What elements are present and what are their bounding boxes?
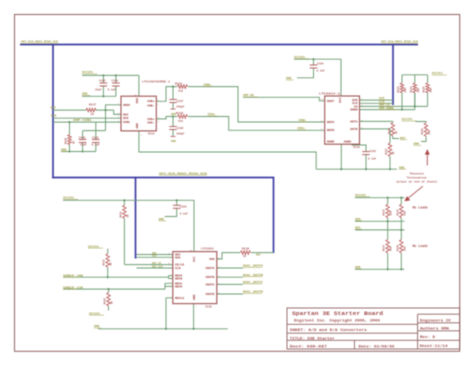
- svg-text:VOUTB: VOUTB: [205, 276, 214, 279]
- svg-text:VCC3V3: VCC3V3: [89, 312, 100, 315]
- svg-text:VREF: VREF: [123, 104, 130, 107]
- svg-text:OUTA: OUTA: [350, 120, 357, 123]
- svg-text:VCC: VCC: [193, 256, 196, 262]
- svg-text:R120: R120: [421, 128, 424, 135]
- svg-text:SHDN: SHDN: [350, 108, 357, 111]
- svg-text:R122: R122: [385, 148, 388, 155]
- svg-text:LTC1407ACMSE-1: LTC1407ACMSE-1: [142, 80, 170, 83]
- svg-text:CONL: CONL: [123, 121, 130, 124]
- svg-text:Date: 02/08/06: Date: 02/08/06: [359, 344, 396, 349]
- svg-text:VREF-AB: VREF-AB: [63, 274, 83, 277]
- svg-text:VDD: VDD: [209, 258, 215, 261]
- svg-text:VOUTA: VOUTA: [205, 267, 214, 270]
- svg-text:10uF: 10uF: [95, 89, 102, 92]
- svg-text:R137: R137: [383, 244, 386, 251]
- svg-text:0.1uF: 0.1uF: [108, 89, 116, 92]
- svg-text:SDI: SDI: [51, 106, 57, 109]
- svg-text:1K: 1K: [392, 151, 395, 155]
- svg-text:100: 100: [390, 210, 393, 215]
- svg-text:R136: R136: [242, 248, 249, 251]
- svg-text:10K: 10K: [404, 87, 407, 92]
- svg-text:VCC: VCC: [339, 97, 342, 103]
- svg-text:SCK: SCK: [123, 117, 129, 120]
- svg-text:C193: C193: [180, 206, 187, 209]
- svg-text:C189: C189: [177, 127, 184, 130]
- svg-text:REFD: REFD: [175, 285, 182, 288]
- svg-text:Authors GMA: Authors GMA: [420, 327, 449, 331]
- svg-text:C192: C192: [370, 150, 377, 153]
- svg-text:1K: 1K: [111, 301, 114, 305]
- svg-text:Termination: Termination: [407, 176, 427, 180]
- svg-text:SDI: SDI: [123, 113, 129, 116]
- svg-text:6: 6: [158, 120, 160, 123]
- svg-text:LTC6912-1: LTC6912-1: [319, 92, 340, 95]
- svg-text:CHA-: CHA-: [147, 122, 154, 125]
- svg-text:OUTB: OUTB: [350, 128, 357, 131]
- svg-text:C185: C185: [99, 79, 106, 82]
- svg-text:VDD: VDD: [136, 98, 139, 104]
- svg-text:C184: C184: [112, 79, 119, 82]
- svg-text:Spartan 3E Starter Board: Spartan 3E Starter Board: [292, 310, 384, 317]
- svg-text:R128: R128: [176, 112, 183, 115]
- svg-text:BUFA: BUFA: [327, 121, 334, 124]
- svg-text:Sheet:11/14: Sheet:11/14: [420, 344, 448, 348]
- svg-text:R126: R126: [423, 86, 426, 93]
- svg-text:REFLO: REFLO: [175, 297, 184, 300]
- svg-text:1K: 1K: [73, 140, 76, 144]
- svg-text:0.1uF: 0.1uF: [368, 158, 376, 161]
- svg-text:C188: C188: [92, 136, 99, 139]
- svg-text:TITLE: S3E Starter: TITLE: S3E Starter: [290, 336, 335, 341]
- svg-text:IC16: IC16: [148, 133, 155, 136]
- svg-text:R138: R138: [396, 244, 399, 251]
- svg-text:Thevenin: Thevenin: [409, 172, 424, 176]
- svg-text:C187: C187: [177, 100, 184, 103]
- svg-text:GND: GND: [171, 140, 176, 143]
- svg-text:SCK: SCK: [51, 115, 57, 118]
- svg-text:LTC2624: LTC2624: [201, 247, 214, 250]
- svg-text:470: 470: [178, 120, 183, 123]
- svg-text:BUFB: BUFB: [327, 129, 334, 132]
- svg-text:10K: 10K: [428, 129, 431, 134]
- svg-text:VOUTC: VOUTC: [205, 283, 214, 286]
- svg-text:(place at end of chain): (place at end of chain): [396, 179, 438, 183]
- svg-text:DGND: DGND: [327, 141, 334, 144]
- svg-text:No Loads: No Loads: [413, 244, 428, 248]
- svg-text:C190: C190: [79, 136, 86, 139]
- svg-text:REFB: REFB: [175, 278, 182, 281]
- svg-text:Doc#: 500-087: Doc#: 500-087: [290, 345, 328, 349]
- svg-text:220pF: 220pF: [176, 132, 184, 135]
- svg-text:SHEET: A/D and D/A Converters: SHEET: A/D and D/A Converters: [290, 328, 368, 333]
- svg-text:R119: R119: [388, 127, 391, 134]
- svg-text:IC19: IC19: [353, 146, 360, 149]
- svg-text:GND: GND: [136, 123, 139, 129]
- svg-text:DOUT: DOUT: [327, 100, 334, 103]
- svg-text:1K: 1K: [110, 262, 113, 266]
- svg-text:SCK: SCK: [152, 255, 157, 258]
- svg-text:CHB+: CHB+: [147, 100, 154, 103]
- svg-text:DAC_OUTB: DAC_OUTB: [243, 274, 263, 277]
- svg-text:1K: 1K: [243, 255, 247, 258]
- svg-text:100: 100: [403, 210, 406, 215]
- svg-text:1K: 1K: [126, 214, 129, 218]
- svg-text:R133: R133: [383, 209, 386, 216]
- svg-text:100: 100: [403, 246, 406, 251]
- svg-text:7: 7: [196, 305, 198, 308]
- svg-text:R123: R123: [175, 82, 182, 85]
- svg-text:GND: GND: [193, 294, 196, 300]
- svg-text:1K: 1K: [91, 113, 95, 116]
- svg-text:VOUTD: VOUTD: [205, 293, 214, 296]
- svg-text:R135: R135: [104, 298, 107, 305]
- svg-text:R129: R129: [65, 137, 68, 144]
- svg-text:Digilent Inc. Copyright 2005,: Digilent Inc. Copyright 2005, 2006: [294, 319, 380, 324]
- svg-text:IC20: IC20: [205, 306, 212, 309]
- svg-text:10K: 10K: [430, 87, 433, 92]
- svg-text:R124: R124: [410, 86, 413, 93]
- svg-text:SCK: SCK: [175, 256, 181, 259]
- svg-text:0.1uF: 0.1uF: [92, 144, 100, 147]
- svg-text:AGND: AGND: [344, 141, 351, 144]
- svg-text:R125: R125: [397, 86, 400, 93]
- svg-text:470: 470: [178, 90, 183, 93]
- svg-text:2: 2: [158, 103, 160, 106]
- svg-text:100: 100: [390, 246, 393, 251]
- svg-text:VREF-CD: VREF-CD: [63, 286, 83, 289]
- svg-text:CHA+: CHA+: [147, 118, 154, 121]
- svg-text:1K: 1K: [395, 130, 398, 134]
- svg-text:Engineers CC: Engineers CC: [420, 319, 451, 323]
- svg-text:4: 4: [141, 133, 143, 136]
- svg-text:0.1uF: 0.1uF: [317, 70, 325, 73]
- svg-text:SDI: SDI: [256, 253, 261, 256]
- svg-text:Rev: D: Rev: D: [420, 335, 435, 339]
- svg-text:DAC_CLR: DAC_CLR: [152, 265, 163, 268]
- svg-text:CS/LD: CS/LD: [175, 263, 184, 267]
- svg-text:No Loads: No Loads: [413, 206, 428, 210]
- svg-text:220pF: 220pF: [176, 105, 184, 108]
- svg-text:R132: R132: [103, 259, 106, 266]
- svg-text:C184: C184: [317, 62, 324, 65]
- svg-text:R134: R134: [396, 209, 399, 216]
- svg-text:CHB-: CHB-: [147, 105, 154, 108]
- svg-text:0.1uF: 0.1uF: [180, 212, 188, 215]
- svg-text:CLR: CLR: [175, 267, 181, 270]
- svg-text:R131: R131: [119, 211, 122, 218]
- svg-text:10K: 10K: [417, 87, 420, 92]
- svg-text:AMP-CONL: AMP-CONL: [73, 119, 93, 122]
- svg-text:R127: R127: [89, 103, 96, 106]
- svg-text:10uF: 10uF: [80, 144, 87, 147]
